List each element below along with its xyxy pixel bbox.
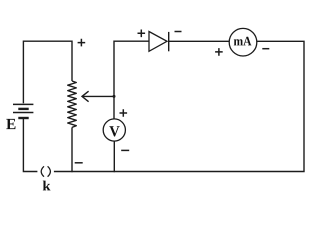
voltmeter V body	[103, 119, 125, 141]
label + milliammeter	[215, 48, 223, 56]
diode D cathode bar	[168, 32, 170, 51]
wire bottom main + right rail	[54, 41, 305, 173]
battery E plate short lower	[18, 117, 28, 119]
wire rheostat bottom lead	[71, 127, 73, 172]
wire middle branch upper + diode anode lead	[113, 41, 149, 120]
label + rheostat top	[78, 39, 86, 47]
diode D triangle	[149, 32, 167, 52]
battery E plate long top	[13, 103, 33, 105]
wire left loop: top + upper left rail	[23, 41, 72, 104]
label - rheostat bottom	[75, 162, 83, 164]
label + voltmeter	[120, 109, 128, 117]
milliammeter mA body	[229, 28, 257, 56]
label - milliammeter	[262, 48, 269, 50]
wire rheostat top lead	[71, 41, 73, 82]
battery E plate long bottom	[13, 112, 33, 114]
key k contact right	[48, 166, 51, 176]
rheostat wiper arrow	[83, 95, 114, 97]
wire lower left rail + bottom left segment	[23, 119, 37, 172]
label - voltmeter	[121, 149, 129, 151]
label V voltmeter	[109, 126, 119, 136]
label E battery	[6, 119, 15, 129]
wire diode to milliammeter	[169, 40, 230, 42]
label - diode cathode	[175, 31, 182, 33]
battery E plate short upper	[18, 108, 28, 110]
wire middle branch lower	[113, 141, 115, 172]
label + diode anode	[138, 30, 146, 38]
label k key	[43, 181, 51, 191]
label mA milliammeter	[234, 37, 252, 46]
key k contact left	[41, 166, 44, 176]
rheostat coil	[68, 81, 77, 127]
junction dot wiper tap	[113, 95, 116, 98]
